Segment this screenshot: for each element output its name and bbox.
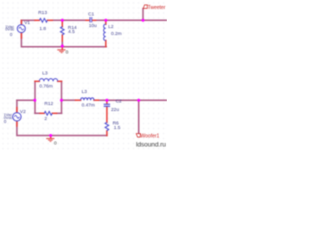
svg-text:22u: 22u — [111, 107, 119, 113]
svg-text:0.76m: 0.76m — [39, 84, 52, 90]
svg-text:ldsound.ru: ldsound.ru — [136, 142, 166, 149]
svg-text:V1: V1 — [24, 20, 30, 26]
svg-text:C2: C2 — [116, 99, 122, 105]
svg-text:L2: L2 — [108, 24, 114, 30]
svg-text:C1: C1 — [88, 11, 94, 17]
svg-text:0: 0 — [54, 141, 57, 147]
svg-text:0: 0 — [66, 50, 69, 56]
svg-text:1.8: 1.8 — [39, 26, 46, 32]
svg-text:R13: R13 — [38, 10, 47, 16]
svg-text:L3: L3 — [42, 71, 48, 77]
svg-text:Woofer1: Woofer1 — [141, 133, 160, 139]
svg-text:L3: L3 — [82, 89, 88, 95]
svg-text:1.5: 1.5 — [114, 125, 121, 131]
svg-text:Tweeter: Tweeter — [148, 5, 166, 11]
svg-text:10u: 10u — [89, 23, 97, 29]
svg-text:2: 2 — [44, 116, 47, 122]
svg-text:0Vdc: 0Vdc — [5, 27, 14, 32]
svg-text:4.5: 4.5 — [68, 29, 75, 35]
svg-text:R12: R12 — [44, 101, 53, 107]
svg-text:0.47m: 0.47m — [82, 102, 95, 108]
svg-text:V2: V2 — [20, 109, 26, 115]
svg-text:0.2m: 0.2m — [111, 31, 122, 37]
